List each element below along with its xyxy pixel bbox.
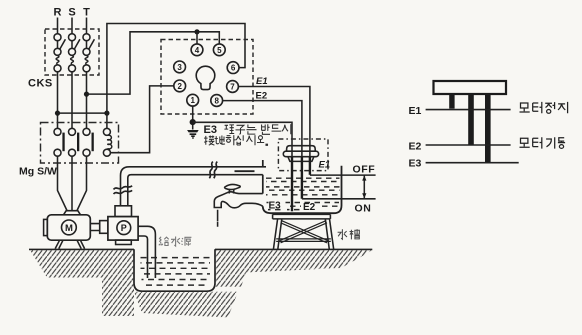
tank left wall upper <box>262 175 264 194</box>
faucet handle <box>225 184 241 193</box>
junction R tap <box>55 111 60 116</box>
switch pole S <box>69 34 80 72</box>
svg-text:3: 3 <box>177 63 182 72</box>
E2 label in tank <box>303 202 316 213</box>
wire coil to pin 2 <box>110 86 174 153</box>
ON label <box>355 202 372 214</box>
ON level line <box>302 198 376 200</box>
wire R phase down to magnetic switch <box>57 72 59 129</box>
motor M body <box>47 215 90 240</box>
relay socket enclosure <box>161 40 253 115</box>
E1 wire label <box>256 76 268 87</box>
wire motor lead 3 <box>77 156 87 211</box>
wire branch up and over to pin 6 <box>107 24 245 114</box>
legend E1 level line <box>426 109 511 111</box>
wire E2 from pin 8 to electrode holder <box>222 101 302 157</box>
pump inlet collar <box>115 206 132 217</box>
legend E2 level line <box>426 144 511 146</box>
switch gap R <box>57 41 59 49</box>
svg-text:M: M <box>65 223 73 234</box>
legend electrode E1 bar <box>449 94 454 109</box>
well pit outline <box>134 249 215 291</box>
tank water dashes <box>266 178 340 209</box>
stand left leg <box>273 219 281 250</box>
delivery pipe riser and horizontal run <box>121 167 267 206</box>
earth hatching right of well <box>215 250 372 287</box>
svg-text:E2: E2 <box>303 202 316 213</box>
pump P body <box>108 217 138 241</box>
junction above pin 4 <box>194 29 199 34</box>
ground symbol E3 <box>187 130 199 138</box>
svg-text:E3: E3 <box>269 201 282 212</box>
shaft coupling <box>100 221 108 234</box>
Mg operating coil <box>103 128 111 156</box>
socket keyway center <box>196 66 215 89</box>
svg-text:5: 5 <box>217 46 222 55</box>
socket pin 4 <box>191 44 203 56</box>
switch gap S <box>71 41 73 49</box>
pump bottom flange <box>116 240 132 244</box>
motor terminal hump <box>64 211 81 215</box>
svg-text:R: R <box>54 7 62 19</box>
svg-text:1: 1 <box>190 96 195 105</box>
legend electrode holder bar <box>434 81 507 94</box>
legend electrode E2 bar <box>468 94 474 145</box>
electrode holder enclosure <box>278 139 328 171</box>
switch pole T <box>83 34 94 72</box>
node S phase label <box>68 7 75 19</box>
socket pin 2 <box>174 80 186 92</box>
svg-text:E1: E1 <box>409 105 422 117</box>
svg-text:E3: E3 <box>204 124 217 136</box>
stand cross bracing <box>280 221 328 243</box>
pump P circle label <box>117 221 131 235</box>
note text line 2 (please ground it) <box>204 135 268 145</box>
svg-text:Mg S/W: Mg S/W <box>19 166 57 178</box>
E1 label at holder <box>319 160 331 171</box>
svg-text:OFF: OFF <box>353 164 376 176</box>
junction ground node <box>190 119 196 125</box>
wire T tap to socket pins 4 and 5 <box>87 32 220 94</box>
electrode E1 rod <box>309 157 311 175</box>
motor M circle label <box>62 220 77 235</box>
svg-text:E1: E1 <box>256 76 268 87</box>
motor start label (CJK) <box>520 137 566 148</box>
motor-pump shaft <box>90 224 99 231</box>
junction coil branch <box>104 111 109 116</box>
wire R tap to coil branch <box>58 112 107 114</box>
wire T phase down to magnetic switch <box>86 72 88 129</box>
motor feet <box>55 240 84 248</box>
svg-text:4: 4 <box>195 46 200 55</box>
wire S lead-in <box>71 18 73 34</box>
E3 label in tank <box>269 201 282 212</box>
svg-text:E3: E3 <box>409 157 422 169</box>
socket pin 7 <box>227 81 239 93</box>
pipe break marks on horizontal run <box>209 162 217 179</box>
knife switch CKS enclosure <box>45 29 99 75</box>
motor stop label (CJK) <box>520 102 568 113</box>
wire branch down to Mg coil <box>106 113 108 128</box>
svg-text:E2: E2 <box>409 140 422 152</box>
Mg contact pole 2 <box>69 128 80 156</box>
stand top plate <box>273 214 331 219</box>
Mg contact pole 3 <box>83 128 94 156</box>
Mg S/W label <box>19 166 57 178</box>
earth hatching left of well <box>30 250 134 316</box>
CKS label <box>28 78 53 90</box>
electrode holder cap <box>283 146 318 162</box>
Mg contact pole 1 <box>54 128 65 156</box>
pipe break marks on riser <box>114 186 133 194</box>
svg-text:CKS: CKS <box>28 78 53 90</box>
socket pin 3 <box>174 61 186 73</box>
pipe inner shade segment <box>235 170 255 172</box>
wire drop to pin 4 <box>196 32 198 45</box>
OFF level line <box>310 174 376 176</box>
wire S phase down to magnetic switch <box>71 72 73 129</box>
svg-text:ON: ON <box>355 202 372 214</box>
svg-text:T: T <box>83 7 90 19</box>
wire R lead-in <box>57 18 59 34</box>
note label E3 bold <box>204 124 217 136</box>
legend electrode E3 bar <box>485 94 491 163</box>
socket pin 5 <box>213 44 225 56</box>
water source label (gray CJK) <box>159 237 192 247</box>
motor left end cap <box>44 219 48 235</box>
svg-text:P: P <box>121 223 127 233</box>
suction pipe from pump into well <box>138 226 155 278</box>
stand right leg <box>325 219 333 250</box>
node T phase label <box>83 7 90 19</box>
socket pin 1 <box>187 94 199 106</box>
wire motor lead 1 <box>58 156 68 211</box>
wire E1 from pin 7 to electrode holder <box>238 87 310 158</box>
faucet body and spout <box>214 192 262 208</box>
ground surface line right <box>215 248 372 250</box>
svg-text:E2: E2 <box>256 91 268 102</box>
well water dashes <box>141 258 211 286</box>
level range arrow <box>362 175 366 199</box>
OFF label <box>353 164 376 176</box>
svg-text:7: 7 <box>230 83 235 92</box>
legend E3 level line <box>426 162 519 164</box>
node R phase label <box>54 7 62 19</box>
svg-text:E1: E1 <box>319 160 331 171</box>
tank wall tick above pipe <box>262 160 264 167</box>
switch pole R <box>54 34 65 72</box>
legend E1 label <box>409 105 422 117</box>
svg-text:S: S <box>68 7 75 19</box>
wire E3 from ground node to electrode holder <box>193 122 292 157</box>
ground surface line left <box>29 248 134 250</box>
electrode E2 rod <box>301 157 303 199</box>
switch gap T <box>86 41 88 49</box>
stand lower brace <box>276 239 331 242</box>
wire motor lead 2 <box>71 156 73 211</box>
wire pin 1 to ground node <box>192 106 194 130</box>
electrode E3 rod <box>291 157 293 211</box>
earth hatching below well <box>134 292 238 318</box>
socket pin 6 <box>227 62 239 74</box>
E2 wire label <box>256 91 268 102</box>
faucet drip <box>217 210 219 227</box>
svg-text:2: 2 <box>177 82 182 91</box>
svg-text:6: 6 <box>231 64 236 73</box>
magnetic switch enclosure <box>41 123 119 164</box>
water tank label (CJK) <box>338 229 360 239</box>
tank outline <box>263 166 342 214</box>
svg-text:8: 8 <box>214 97 219 106</box>
legend E3 label <box>409 157 422 169</box>
wire T lead-in <box>86 18 88 34</box>
socket pin 8 <box>211 95 223 107</box>
legend E2 label <box>409 140 422 152</box>
junction T tap <box>84 92 89 97</box>
note text line 1 (terminal must be) <box>224 124 290 134</box>
